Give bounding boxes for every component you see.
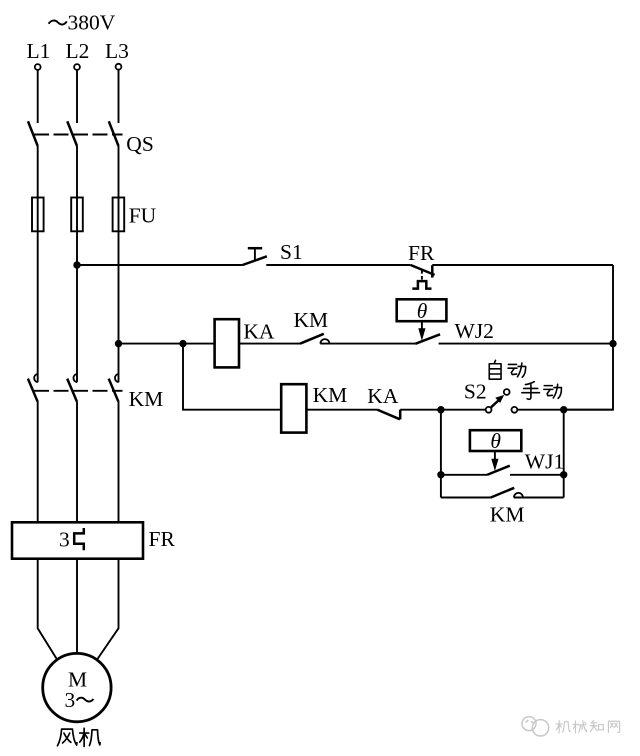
motor M circle bbox=[43, 653, 111, 721]
label 自动 (auto) bbox=[489, 360, 501, 379]
watermark 机械知网 bbox=[556, 721, 570, 733]
contact KM selfhold blade bbox=[491, 488, 515, 498]
svg-text:KA: KA bbox=[367, 384, 399, 408]
branch left vertical bbox=[440, 410, 442, 498]
contact FR actuator dashes bbox=[421, 270, 423, 281]
node WJ1 left bbox=[437, 471, 444, 478]
node B bbox=[560, 406, 567, 413]
rung 3 wire a bbox=[306, 409, 377, 411]
svg-text:3: 3 bbox=[65, 688, 76, 712]
timer WJ2 arrow stem bbox=[421, 321, 423, 329]
rung 1 wire left bbox=[77, 264, 243, 266]
selector S2 auto throw circle bbox=[504, 389, 510, 395]
timer WJ2 theta box bbox=[397, 299, 447, 321]
wire L3 lower bbox=[118, 402, 120, 523]
contact WJ1 blade bbox=[487, 466, 510, 475]
label 手动 (manual) bbox=[522, 382, 540, 400]
svg-text:S2: S2 bbox=[464, 380, 487, 404]
fuse FU3 bbox=[113, 198, 125, 232]
svg-text:θ: θ bbox=[417, 299, 428, 323]
contact KM selfhold fixed arc bbox=[514, 493, 523, 498]
node bus rung2 bbox=[609, 340, 616, 347]
contactor KM pole 1 blade bbox=[28, 379, 38, 402]
svg-text:KM: KM bbox=[490, 503, 525, 527]
fuse FU1 bbox=[32, 198, 44, 232]
svg-text:S1: S1 bbox=[280, 240, 303, 264]
branch right vertical bbox=[563, 410, 565, 498]
wire WJ1 rung right bbox=[510, 474, 564, 476]
selector S2 manual throw circle bbox=[512, 407, 518, 413]
wire KM aux rung left bbox=[441, 497, 491, 499]
svg-text:WJ1: WJ1 bbox=[525, 449, 564, 473]
contact KA terminal tick bbox=[399, 410, 402, 420]
wire motor feed L1 bbox=[38, 559, 58, 661]
wire motor feed L2 bbox=[76, 559, 78, 654]
contactor KM pole 3 fixed contact arc bbox=[115, 374, 119, 382]
rung 3 wire right bbox=[517, 409, 613, 411]
wire L2 mid bbox=[76, 146, 78, 382]
svg-text:θ: θ bbox=[490, 429, 501, 453]
timer WJ2 arrowhead bbox=[418, 328, 425, 341]
wire L3 mid bbox=[118, 146, 120, 382]
rung 3 wire b bbox=[400, 409, 486, 411]
svg-text:3: 3 bbox=[59, 528, 70, 552]
svg-text:FU: FU bbox=[129, 204, 157, 228]
rung 2 wire right bbox=[439, 343, 613, 345]
switch QS pole 1 blade bbox=[28, 121, 38, 146]
rung 2 wire b bbox=[320, 343, 415, 345]
relay coil KA bbox=[215, 319, 239, 367]
wire L2 top bbox=[76, 70, 78, 123]
selector S2 pivot circle bbox=[486, 407, 492, 413]
terminal L2 bbox=[74, 64, 80, 70]
svg-text:KA: KA bbox=[243, 319, 275, 343]
selector S2 arrowhead bbox=[495, 395, 504, 403]
contact FR thermal actuator symbol bbox=[412, 281, 431, 289]
wire WJ1 rung left bbox=[441, 474, 487, 476]
svg-text:L3: L3 bbox=[105, 39, 129, 63]
thermal relay heater symbol bbox=[74, 528, 84, 550]
pushbutton S1 operator stem bbox=[254, 248, 256, 260]
pushbutton S1 blade bbox=[243, 256, 267, 265]
svg-text:WJ2: WJ2 bbox=[455, 319, 494, 343]
contact KM aux (NO) fixed arc bbox=[320, 339, 329, 343]
contactor coil KM bbox=[281, 384, 306, 432]
label 风机 (fan) bbox=[57, 729, 77, 746]
rung 2 wire a bbox=[239, 343, 300, 345]
rung 1 wire middle bbox=[266, 264, 410, 266]
svg-text:L2: L2 bbox=[66, 39, 90, 63]
wire L2 lower bbox=[76, 402, 78, 523]
watermark logo bbox=[522, 717, 549, 736]
wire L1 top bbox=[37, 70, 39, 123]
node A bbox=[437, 406, 444, 413]
wire KM aux rung right bbox=[514, 497, 564, 499]
svg-text:KM: KM bbox=[294, 308, 329, 332]
contactor KM link (dashed) bbox=[34, 390, 123, 392]
contact KA blade bbox=[377, 410, 400, 420]
wire L1 lower bbox=[37, 402, 39, 523]
selector S2 blade arrow stem bbox=[491, 400, 500, 408]
wire motor feed L3 bbox=[97, 559, 119, 661]
contact WJ2 blade bbox=[415, 334, 440, 344]
fuse FU2 bbox=[71, 198, 83, 232]
right bus vertical bbox=[564, 265, 613, 410]
node rung2 tap on L3 bbox=[115, 340, 122, 347]
switch QS link (dashed) bbox=[34, 134, 123, 136]
timer WJ1 theta box bbox=[470, 430, 521, 451]
label ~380V bbox=[49, 21, 67, 25]
node rung1 tap on L2 bbox=[73, 261, 80, 268]
contactor KM pole 2 blade bbox=[67, 379, 77, 402]
svg-text:380V: 380V bbox=[68, 10, 116, 34]
contact KM aux (NO) blade bbox=[300, 334, 324, 344]
svg-text:L1: L1 bbox=[27, 39, 51, 63]
contactor KM pole 1 fixed contact arc bbox=[34, 374, 38, 382]
wire L3 top bbox=[118, 70, 120, 123]
rung 1 wire right bbox=[432, 264, 613, 266]
svg-text:FR: FR bbox=[408, 241, 435, 265]
terminal L3 bbox=[116, 64, 122, 70]
svg-text:FR: FR bbox=[149, 527, 176, 551]
node rung2/rung3 junction bbox=[179, 340, 186, 347]
contact FR (NC) blade bbox=[411, 265, 435, 275]
timer WJ1 arrow stem bbox=[494, 451, 496, 460]
contact FR (NC) terminal tick bbox=[431, 265, 434, 277]
timer WJ1 arrowhead bbox=[491, 459, 498, 471]
wire L1 mid bbox=[37, 146, 39, 382]
contactor KM pole 3 blade bbox=[109, 379, 119, 402]
thermal relay FR box bbox=[12, 522, 143, 558]
contactor KM pole 2 fixed contact arc bbox=[73, 374, 77, 382]
switch QS pole 3 blade bbox=[109, 121, 119, 146]
svg-text:KM: KM bbox=[129, 387, 164, 411]
svg-text:QS: QS bbox=[126, 132, 153, 156]
rung 2 wire left bbox=[119, 343, 215, 345]
rung 3 drop wire bbox=[183, 344, 281, 410]
svg-text:KM: KM bbox=[313, 383, 348, 407]
terminal L1 bbox=[35, 64, 41, 70]
switch QS pole 2 blade bbox=[67, 121, 77, 146]
node WJ1 right bbox=[560, 471, 567, 478]
pushbutton S1 operator bar bbox=[248, 247, 262, 250]
